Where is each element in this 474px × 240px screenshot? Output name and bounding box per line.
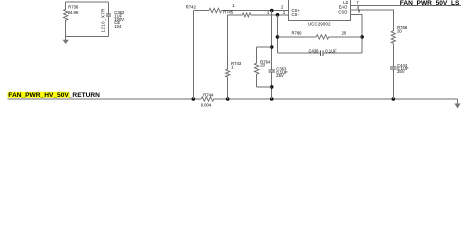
resistor R764 xyxy=(254,47,271,87)
wire bottom return rail right of shunt xyxy=(214,98,458,100)
wire R745 to IC pin 1 xyxy=(251,14,289,16)
wire R768 to C444 xyxy=(392,43,394,67)
capacitor C362 xyxy=(106,2,125,36)
arrow off-page pointer bottom right xyxy=(454,104,460,109)
svg-text:R744: R744 xyxy=(203,92,214,97)
wire C444 to rail xyxy=(392,69,394,99)
svg-text:FAN_PWR_HV_50V_RETURN: FAN_PWR_HV_50V_RETURN xyxy=(8,92,100,99)
op-amp U1 UCC29002 box xyxy=(289,0,351,27)
svg-text:20: 20 xyxy=(260,63,265,68)
node dot CS- row / vertical B xyxy=(276,13,280,17)
svg-text:R742: R742 xyxy=(186,5,197,10)
wire vertical A from CS+ row down to C363 xyxy=(271,11,273,70)
resistor R743 xyxy=(226,61,242,77)
wire corner down at right end of return rail xyxy=(457,99,459,104)
svg-text:25V: 25V xyxy=(276,73,284,78)
wire CSO pin 8 down to C438 row xyxy=(350,14,362,53)
resistor R742 xyxy=(186,5,222,13)
wire R743 bottom to rail xyxy=(227,77,229,99)
wire vertical B from CS- row down to C438 row xyxy=(277,15,279,53)
node dot rail / R742 tap xyxy=(192,97,196,101)
svg-text:1: 1 xyxy=(232,3,235,8)
resistor R744 (shunt) xyxy=(201,92,214,107)
svg-text:25V: 25V xyxy=(397,69,405,74)
node dot rail / C363 branch xyxy=(270,97,274,101)
wire R764 top branch xyxy=(257,46,272,48)
node dot vertical A / R764 bottom xyxy=(270,85,274,89)
resistor R736 xyxy=(64,2,79,36)
wire R742 to IC pin 2 xyxy=(222,10,289,12)
wire bottom rail of left RC block xyxy=(66,35,109,37)
svg-text:UCC29002: UCC29002 xyxy=(308,22,331,27)
node dot CSO vertical / R766 row xyxy=(360,35,364,39)
wire CS+ row left segment xyxy=(193,10,209,12)
svg-text:R766: R766 xyxy=(292,30,303,35)
node dot CS+ row / vertical A xyxy=(270,9,274,13)
svg-text:CS-: CS- xyxy=(292,12,300,17)
node dot rail / C444 branch xyxy=(392,97,396,101)
svg-text:0.1UF: 0.1UF xyxy=(325,48,337,53)
svg-text:0.004: 0.004 xyxy=(201,102,212,107)
wire C363 to rail xyxy=(271,72,273,99)
resistor R766 xyxy=(278,30,363,39)
svg-text:FAN_PWR_50V_LS: FAN_PWR_50V_LS xyxy=(400,0,460,7)
svg-text:8: 8 xyxy=(358,9,361,14)
svg-text:1210_X7R: 1210_X7R xyxy=(101,8,106,32)
node dot rail / R743 tap xyxy=(226,97,230,101)
wire EAO pin 4 to R768 xyxy=(350,10,393,31)
capacitor C444 xyxy=(390,63,409,74)
svg-text:R736: R736 xyxy=(68,5,79,10)
wire vertical tap from rail to CS- row xyxy=(227,15,229,69)
wire LS pin 7 to net label xyxy=(350,5,461,7)
net FAN_PWR_HV_50V_RETURN label xyxy=(8,92,101,99)
resistor R745 xyxy=(223,10,251,17)
svg-text:R745: R745 xyxy=(223,10,234,15)
node dot vertical A / R764 branch xyxy=(270,45,274,49)
ground arrow below R736 xyxy=(63,36,69,44)
wire vertical tap from rail to CS+ row xyxy=(192,11,194,100)
svg-text:20: 20 xyxy=(342,30,347,35)
wire CS- row left segment xyxy=(228,14,243,16)
svg-text:C438: C438 xyxy=(309,48,320,53)
wire R764 bottom branch xyxy=(257,86,272,88)
capacitor C363 xyxy=(268,67,288,78)
wire bottom return rail left of shunt xyxy=(8,98,202,100)
svg-text:24.9K: 24.9K xyxy=(68,10,79,15)
node dot vertical B / R766 row xyxy=(276,35,280,39)
svg-text:2: 2 xyxy=(281,4,284,9)
wire top rail of left RC block xyxy=(66,1,109,3)
svg-text:20: 20 xyxy=(397,28,402,33)
resistor R768 xyxy=(391,25,408,43)
capacitor C438 xyxy=(278,48,363,56)
svg-text:104: 104 xyxy=(114,24,122,29)
svg-text:CSO: CSO xyxy=(338,10,348,15)
